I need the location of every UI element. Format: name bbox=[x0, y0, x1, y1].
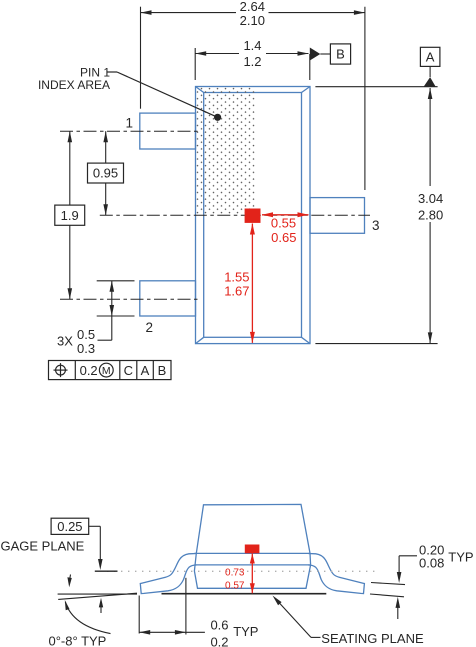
body bottom extension line bbox=[315, 343, 437, 345]
svg-text:0.6: 0.6 bbox=[210, 617, 228, 632]
svg-text:B: B bbox=[158, 363, 167, 378]
svg-text:1.67: 1.67 bbox=[224, 284, 249, 299]
svg-text:3: 3 bbox=[372, 218, 380, 233]
svg-text:0.57: 0.57 bbox=[225, 580, 245, 591]
svg-text:0.95: 0.95 bbox=[93, 166, 118, 181]
centerline pin 2 bbox=[60, 298, 201, 300]
pin 1 index area dots bbox=[197, 88, 255, 216]
svg-text:3.04: 3.04 bbox=[418, 191, 443, 206]
gage plane dotted line bbox=[107, 570, 380, 572]
svg-text:0.5: 0.5 bbox=[77, 327, 95, 342]
svg-text:INDEX AREA: INDEX AREA bbox=[38, 78, 110, 92]
svg-text:0.2: 0.2 bbox=[210, 634, 228, 647]
svg-text:0.73: 0.73 bbox=[225, 568, 245, 579]
red dimension 0.55/0.65 bbox=[262, 214, 309, 216]
dimension 3.04/2.80 bbox=[429, 88, 431, 343]
svg-text:A: A bbox=[141, 363, 150, 378]
side view body trapezoid bbox=[194, 504, 310, 588]
svg-text:2.10: 2.10 bbox=[240, 13, 265, 28]
body top extension line bbox=[315, 86, 437, 88]
svg-text:2: 2 bbox=[146, 320, 154, 335]
svg-text:0.08: 0.08 bbox=[419, 556, 444, 571]
pin 3 bbox=[310, 198, 365, 234]
centerline pin 1 bbox=[60, 130, 201, 132]
pin 1 index area label and leader bbox=[38, 65, 221, 121]
right lead gull wing bbox=[308, 554, 364, 594]
left lead gull wing bbox=[140, 554, 196, 594]
dimension 0.6/0.2 TYP bbox=[139, 578, 205, 635]
svg-text:M: M bbox=[102, 365, 111, 377]
svg-text:0.65: 0.65 bbox=[271, 230, 296, 245]
svg-text:2.80: 2.80 bbox=[418, 207, 443, 222]
pin 2 bbox=[140, 281, 196, 316]
pin 1 bbox=[140, 113, 196, 149]
red pad square (top view) bbox=[245, 209, 261, 223]
dimension 1.9 bbox=[69, 131, 71, 299]
svg-text:TYP: TYP bbox=[233, 624, 258, 639]
red dimension 0.73/0.57 bbox=[251, 554, 253, 594]
dimension 1.4/1.2 bbox=[195, 48, 310, 80]
lead top plane line bbox=[194, 552, 310, 554]
dimension 0.95 bbox=[105, 131, 107, 215]
datum B bbox=[310, 44, 351, 64]
svg-text:TYP: TYP bbox=[448, 550, 473, 565]
feature control frame 0.2 M C A B bbox=[49, 361, 172, 380]
dimension 0.20/0.08 TYP lead thickness bbox=[370, 556, 417, 619]
svg-text:1.55: 1.55 bbox=[224, 269, 249, 284]
lead angle sloped line bbox=[58, 593, 137, 599]
svg-text:0.3: 0.3 bbox=[77, 341, 95, 356]
svg-text:1.4: 1.4 bbox=[243, 38, 261, 53]
datum A bbox=[420, 47, 440, 86]
svg-text:1.9: 1.9 bbox=[61, 208, 79, 223]
svg-text:1: 1 bbox=[125, 116, 133, 131]
svg-text:A: A bbox=[426, 50, 435, 65]
svg-text:B: B bbox=[336, 47, 345, 62]
red dimension 1.55/1.67 bbox=[251, 224, 253, 343]
red pad square (side view) bbox=[245, 545, 260, 554]
centerline package bbox=[100, 214, 370, 216]
svg-text:GAGE PLANE: GAGE PLANE bbox=[1, 538, 85, 553]
dimension 3X 0.5/0.3 bbox=[97, 281, 135, 340]
svg-text:C: C bbox=[124, 363, 133, 378]
SEATING PLANE label and leader bbox=[273, 596, 424, 646]
svg-text:SEATING PLANE: SEATING PLANE bbox=[321, 631, 424, 646]
svg-text:0.25: 0.25 bbox=[57, 519, 82, 534]
svg-text:0.2: 0.2 bbox=[80, 363, 98, 378]
svg-text:3X: 3X bbox=[57, 334, 73, 349]
dimension 2.64/2.10 bbox=[141, 7, 365, 190]
svg-text:1.2: 1.2 bbox=[243, 54, 261, 69]
package body outline bbox=[196, 87, 311, 344]
gage plane 0.25 callout bbox=[51, 518, 117, 571]
seating plane line left segment (angle detail) bbox=[58, 593, 137, 595]
lead angle 0-8 deg callout bbox=[49, 575, 111, 647]
seating plane line bbox=[162, 593, 327, 595]
svg-text:2.64: 2.64 bbox=[240, 0, 265, 14]
svg-text:0°-8° TYP: 0°-8° TYP bbox=[49, 634, 107, 647]
lead bottom plane line bbox=[194, 564, 310, 566]
svg-text:0.55: 0.55 bbox=[271, 216, 296, 231]
